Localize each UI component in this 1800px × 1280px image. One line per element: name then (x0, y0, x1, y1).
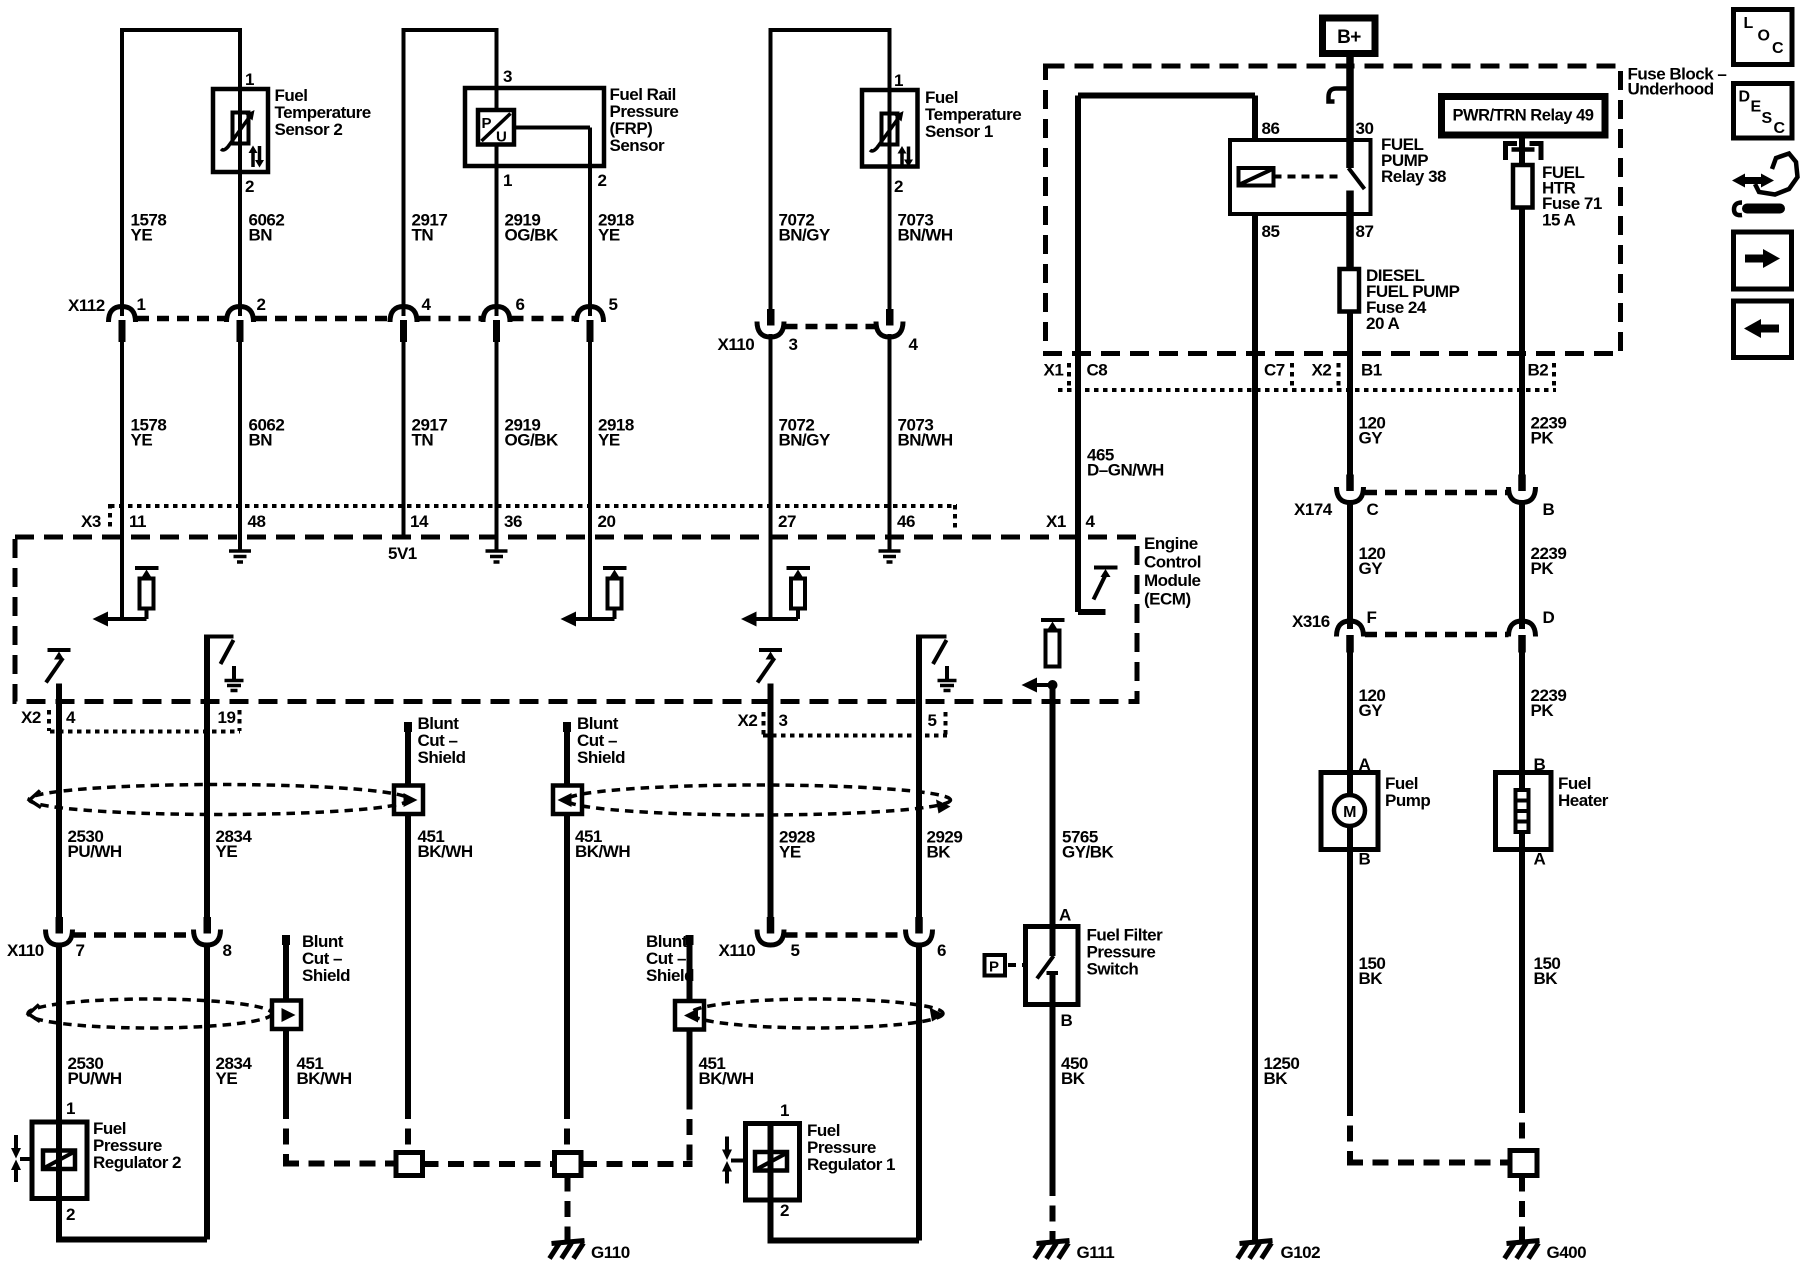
wire relay 87 to fuse 24 (1346, 214, 1354, 269)
svg-text:1: 1 (894, 71, 903, 90)
wire 2917 TN to ECM (402, 342, 406, 537)
svg-text:C8: C8 (1087, 361, 1108, 380)
svg-text:85: 85 (1262, 222, 1280, 241)
X110 dash 7-8 (74, 932, 194, 938)
connector X3 dotted face line (110, 504, 957, 531)
svg-text:11: 11 (129, 512, 146, 531)
svg-text:X174: X174 (1294, 500, 1333, 519)
svg-text:G110: G110 (591, 1243, 630, 1262)
svg-text:2: 2 (257, 295, 266, 314)
ECM internal low-side switch (X2 pin 5) (919, 635, 957, 702)
DIESEL FUEL PUMP Fuse 24 (1340, 269, 1360, 312)
PWR/TRN Relay 49 box (1442, 97, 1606, 136)
wire 6062 BN to ECM (238, 342, 242, 551)
svg-text:1: 1 (503, 171, 512, 190)
svg-text:1: 1 (245, 70, 254, 89)
wire 450 BK (switch B down) (1050, 1005, 1056, 1181)
svg-text:L: L (1744, 15, 1754, 32)
wire 1250 BK (relay 85 to G102) (1252, 214, 1258, 1241)
svg-text:B2: B2 (1528, 361, 1549, 380)
X112 pin 4 terminal (390, 307, 417, 343)
junction dot (5765 line) (1048, 680, 1058, 690)
X110 pin 7 terminal (46, 917, 73, 945)
svg-text:27: 27 (778, 512, 796, 531)
ECM internal pull-up resistor (pin 11) (140, 579, 154, 609)
X110 pin 5 terminal (757, 917, 784, 945)
svg-text:X110: X110 (719, 941, 756, 960)
wire 120 GY (X174-C to X316-F) (1347, 501, 1353, 630)
ECM internal ground (pin 46) (879, 537, 901, 562)
wire 450 BK dashed to ground (1050, 1180, 1056, 1241)
svg-text:X2: X2 (738, 711, 758, 730)
shield termination box (upper-right) (553, 786, 582, 815)
shield drain wire 451 BK/WH (lower-right) (687, 945, 693, 1103)
svg-text:X110: X110 (718, 335, 755, 354)
wire 2918 YE to ECM (588, 342, 592, 619)
wire 7072 BN/GY top loop (Fuel Temperature Sensor 1 supply) (771, 28, 890, 309)
wire 7073 BN/WH (sensor 1 pin 2 down) (888, 167, 892, 310)
X112 pin 6 terminal (483, 307, 510, 343)
svg-text:3: 3 (503, 67, 512, 86)
shield ellipse (2530/2834 pair lower) (28, 999, 272, 1028)
svg-text:2: 2 (598, 171, 607, 190)
wire 2530 PU/WH (X110-7 to regulator 2) (56, 943, 62, 1122)
svg-text:C: C (1774, 120, 1786, 137)
fuel heater element (1516, 773, 1529, 850)
icon DESC box (1734, 84, 1793, 139)
svg-text:450BK: 450BK (1061, 1054, 1088, 1088)
X2 (left) dotted face line (49, 710, 240, 732)
svg-text:6: 6 (937, 941, 946, 960)
X110 dash 3-4 (786, 324, 877, 330)
X110 dash 5-6 (786, 932, 906, 938)
svg-text:5: 5 (609, 295, 618, 314)
wire 2834 YE (ECM X2-19 to X110-8) (204, 702, 210, 918)
X112 pin 2 terminal (227, 307, 254, 343)
ECM internal input arrow (pin 27) (741, 609, 798, 627)
icon compare arrows (1732, 154, 1798, 216)
splice box (shield drain, left) (396, 1153, 423, 1176)
B+ feed box (1323, 18, 1376, 54)
relay 38 coil (1239, 168, 1274, 186)
wire PWR/TRN to fuse 71 (1519, 136, 1525, 165)
svg-text:E: E (1751, 99, 1762, 116)
bus tap hook symbol (1329, 89, 1348, 102)
regulator 2 return loop to X110-8 (56, 1199, 207, 1240)
svg-text:86: 86 (1262, 119, 1280, 138)
FRP internal wires (497, 88, 591, 166)
svg-text:2: 2 (780, 1201, 789, 1220)
svg-text:X2: X2 (1312, 361, 1332, 380)
wire 150 BK dashed (heater to splice) (1519, 1097, 1525, 1150)
shield drain dashed to corner (right) (581, 1103, 693, 1164)
wire 2239 PK (X174-B to X316-D) (1519, 501, 1525, 630)
splice box (150 BK) (1510, 1151, 1537, 1176)
svg-text:150BK: 150BK (1534, 954, 1561, 988)
svg-text:X110: X110 (7, 941, 44, 960)
ECM internal low-side switch (X2 pin 19) (207, 635, 244, 702)
X2 (middle) dotted face line (763, 712, 947, 736)
fuse 71 holder clip (1506, 144, 1542, 161)
FUEL PUMP Relay 38 box (1230, 140, 1371, 214)
shield termination box (lower-right) (675, 1001, 704, 1030)
dashed stub splice to G400 (1519, 1176, 1525, 1242)
svg-text:4: 4 (422, 295, 432, 314)
svg-text:PWR/TRN Relay 49: PWR/TRN Relay 49 (1453, 106, 1594, 125)
X316 dash F-D (1365, 632, 1509, 638)
wire 120 GY (fuse 24 to X174-C) (1347, 312, 1353, 475)
ground G400 (1505, 1241, 1540, 1259)
fuse block connector dotted face line (1058, 363, 1556, 390)
Fuel Filter Pressure Switch box (1026, 927, 1079, 1005)
Fuel Rail Pressure (FRP) Sensor box (465, 88, 604, 166)
wire 2919 OG/BK to ECM (495, 342, 499, 551)
svg-text:X1: X1 (1046, 512, 1066, 531)
svg-text:D: D (1739, 89, 1750, 106)
regulator 1 valve arrows (722, 1137, 746, 1184)
wire 6062 BN (sensor 2 pin 2 down) (238, 172, 242, 316)
wire 2929 BK (ECM X2-5 to X110-6) (916, 702, 922, 918)
ECM internal output arrow (5765 line) (1022, 678, 1049, 693)
ECM internal pull-up (5765 line): supply bar (1041, 620, 1065, 630)
X174 dash C-B (1365, 490, 1509, 496)
ground G110 (550, 1241, 585, 1259)
pressure sensing element P/U (FRP) (478, 110, 514, 146)
ECM internal switch lever (X1 pin 4) (1094, 575, 1106, 600)
svg-text:120GY: 120GY (1359, 544, 1386, 578)
svg-text:M: M (1343, 804, 1356, 821)
svg-text:X3: X3 (81, 512, 101, 531)
svg-text:2: 2 (66, 1205, 75, 1224)
wire 5765 GY/BK (ECM to pressure switch) (1050, 685, 1056, 927)
Fuel Temperature Sensor 2 box (213, 89, 268, 172)
shield drain dashed corner (left) (283, 1103, 396, 1164)
wire 7073 BN/WH to ECM (888, 334, 892, 551)
svg-text:4: 4 (909, 335, 919, 354)
svg-text:3: 3 (779, 711, 788, 730)
svg-text:1: 1 (66, 1099, 75, 1118)
svg-text:4: 4 (1086, 512, 1096, 531)
shield drain wire 451 BK/WH (upper-right) (564, 732, 570, 1103)
Fuel Pressure Regulator 1 box (746, 1124, 800, 1201)
shield drain wire 451 BK/WH (lower-left) (283, 945, 289, 1103)
icon LOC box (1734, 10, 1793, 65)
svg-text:87: 87 (1356, 222, 1374, 241)
ECM internal input arrow (pin 20) (561, 609, 615, 627)
regulator 1 solenoid coil (755, 1152, 787, 1171)
wire 150 BK dashed (pump to splice) (1347, 1100, 1510, 1163)
wire 2834 YE (X110-8 to loop) (204, 943, 210, 1240)
svg-text:O: O (1758, 28, 1770, 45)
ground G102 (1238, 1241, 1273, 1259)
thermistor symbol (sensor 2) (221, 89, 264, 172)
svg-text:14: 14 (410, 512, 429, 531)
svg-text:150BK: 150BK (1359, 954, 1386, 988)
ECM internal input arrow (pin 11) (93, 609, 147, 627)
Fuse Block - Underhood dashed box (1046, 66, 1621, 354)
ground G111 (1035, 1241, 1070, 1259)
svg-text:D: D (1543, 608, 1555, 627)
svg-text:5: 5 (791, 941, 800, 960)
svg-text:19: 19 (218, 708, 236, 727)
svg-text:C7: C7 (1264, 361, 1285, 380)
svg-text:S: S (1762, 110, 1773, 127)
svg-text:20: 20 (598, 512, 616, 531)
Fuel Heater box (1496, 773, 1552, 850)
svg-text:X1: X1 (1044, 361, 1064, 380)
svg-text:P: P (482, 115, 492, 132)
X316 pin D terminal (1509, 621, 1536, 653)
wire 7072 BN/GY to ECM (769, 334, 773, 619)
ECM internal driver (X2 pin 3): supply bar (759, 650, 782, 660)
wire 2239 PK (X316-D to fuel heater B) (1519, 653, 1525, 773)
shield drain dashed (between splices) (423, 1161, 555, 1167)
wire 2530 PU/WH (ECM X2-4 to X110-7) (56, 684, 62, 918)
svg-text:120GY: 120GY (1359, 414, 1386, 448)
svg-text:8: 8 (223, 941, 232, 960)
blunt cut tick (shield 451 upper-left) (404, 722, 412, 732)
svg-text:G111: G111 (1077, 1243, 1115, 1262)
shield ellipse (2928/2929 pair lower) (691, 999, 943, 1028)
P actuator box (pressure switch) (985, 955, 1006, 976)
svg-text:5: 5 (928, 711, 937, 730)
X316 pin F terminal (1337, 621, 1364, 653)
svg-text:3: 3 (789, 335, 798, 354)
shield drain dashed (451 upper-left leg) (405, 1103, 411, 1152)
wire 1578 YE top loop (Fuel Temperature Sensor 2 supply) (122, 28, 240, 316)
svg-text:B+: B+ (1337, 27, 1361, 48)
shield ellipse arrow (right tip) (936, 800, 951, 814)
wire B+ to relay 30 (1346, 54, 1354, 141)
X174 pin C terminal (1337, 475, 1364, 503)
ECM internal ground (pin 36) (486, 537, 508, 562)
blunt cut tick (shield 451 lower-left) (282, 935, 290, 945)
splice box (shield drain, right) (555, 1153, 582, 1176)
svg-text:6: 6 (516, 295, 525, 314)
ECM internal pull-up resistor (5765 line) (1046, 631, 1060, 667)
svg-text:C: C (1367, 500, 1379, 519)
regulator 2 solenoid coil (43, 1151, 75, 1170)
svg-text:2: 2 (245, 177, 254, 196)
regulator 2 valve arrows (11, 1135, 32, 1182)
ECM internal driver to B+ (X1 pin 4): supply bar (1094, 568, 1118, 578)
X112 dash 4-6 (419, 316, 484, 322)
wire 1578 YE to ECM (120, 342, 124, 619)
wire 120 GY (X316-F to fuel pump A) (1347, 653, 1353, 773)
blunt cut tick (shield 451 upper-right) (563, 722, 571, 732)
svg-text:7: 7 (76, 941, 85, 960)
regulator 1 internal wire (768, 1124, 774, 1201)
svg-text:G102: G102 (1281, 1243, 1321, 1262)
shield ellipse open arrow (left tip) (30, 791, 42, 808)
X112 pin 1 terminal (109, 307, 136, 343)
ECM internal pull-up, pin 20: supply bar (603, 568, 627, 578)
Engine Control Module (ECM) dashed box (15, 537, 1137, 702)
relay 38 coil-switch dashed link (1274, 175, 1341, 179)
X110 pin 3 terminal (757, 309, 784, 337)
svg-text:30: 30 (1356, 119, 1374, 138)
X110 pin 6 terminal (906, 917, 933, 945)
svg-text:Fuse Block –Underhood: Fuse Block –Underhood (1628, 65, 1727, 99)
icon forward arrow box (1734, 232, 1792, 289)
X110 pin 8 terminal (194, 917, 221, 945)
ECM internal switch lever (X2 pin 4) (46, 658, 63, 683)
svg-text:X2: X2 (21, 708, 41, 727)
ECM internal wire L (X1 pin 4) (1078, 537, 1106, 612)
svg-text:A: A (1059, 906, 1071, 925)
relay 38 switch (1349, 140, 1365, 214)
shield termination box (upper-left) (394, 786, 423, 815)
svg-text:P: P (989, 959, 999, 976)
svg-text:A: A (1534, 850, 1546, 869)
wire 150 BK (fuel pump B) (1347, 850, 1353, 1101)
shield termination box (lower-left) (272, 1001, 301, 1030)
svg-text:C: C (1772, 40, 1784, 57)
X112 dash 2-4 (255, 316, 390, 322)
svg-text:1: 1 (137, 295, 146, 314)
svg-text:X112: X112 (68, 296, 105, 315)
wire 2918 YE (FRP pin 2 down) (588, 166, 592, 316)
wire 2928 YE (ECM X2-3 to X110-5) (768, 684, 774, 918)
svg-text:48: 48 (248, 512, 266, 531)
P actuator dashed link (1008, 963, 1026, 967)
shield ellipse open arrow (left tip, lower) (29, 1005, 41, 1022)
wire 2917 TN top loop (FRP supply) (404, 28, 497, 316)
wire 2239 PK (fuse 71 to X174-B) (1519, 208, 1525, 475)
ECM internal switch lever (X2 pin 3) (758, 658, 775, 683)
wire relay 86 to fuse block exit C8 (1078, 96, 1255, 538)
svg-text:F: F (1367, 608, 1377, 627)
wire 150 BK (fuel heater A) (1519, 850, 1525, 1098)
X112 dash 6-5 (512, 316, 577, 322)
shield ellipse (2530/2834 pair) (29, 785, 409, 815)
svg-text:B: B (1543, 500, 1555, 519)
regulator 1 return loop to X110-6 (768, 943, 920, 1241)
X110 pin 4 terminal (876, 309, 903, 337)
shield drain dashed (451 upper-right leg) (564, 1103, 570, 1152)
Fuel Pump box (1321, 773, 1378, 850)
svg-text:4: 4 (66, 708, 76, 727)
blunt cut tick (shield 451 lower-right) (686, 935, 694, 945)
Fuel Pressure Regulator 2 box (32, 1122, 87, 1199)
shield drain wire 451 BK/WH (upper-left) (405, 732, 411, 1103)
svg-text:B: B (1061, 1011, 1073, 1030)
shield ellipse (2928/2929 pair) (567, 785, 951, 815)
ECM internal pull-up resistor (pin 20) (608, 579, 622, 609)
svg-text:2: 2 (894, 177, 903, 196)
FUEL HTR Fuse 71 (1513, 165, 1533, 208)
thermistor symbol (sensor 1) (870, 90, 913, 167)
svg-text:46: 46 (897, 512, 915, 531)
X112 pin 5 terminal (577, 307, 604, 343)
pressure switch internal contact (1037, 927, 1058, 1005)
svg-text:120GY: 120GY (1359, 686, 1386, 720)
regulator 2 internal wire (56, 1122, 62, 1199)
wire 2919 OG/BK (FRP pin 1 down) (495, 166, 499, 316)
svg-text:G400: G400 (1547, 1243, 1587, 1262)
X112 dash 1-2 (137, 316, 226, 322)
shield drain dashed stub to G110 (565, 1176, 571, 1242)
shield ellipse arrow (right tip, lower) (930, 1008, 945, 1022)
svg-text:B: B (1359, 850, 1371, 869)
ECM internal driver (X2 pin 4): supply bar (48, 650, 71, 660)
ECM internal pull-up, pin 27: supply bar (787, 568, 811, 578)
icon back arrow box (1734, 301, 1792, 358)
svg-text:5V1: 5V1 (388, 544, 417, 563)
fuel pump motor M (1334, 773, 1365, 850)
ECM internal pull-up, pin 11: supply bar (135, 568, 159, 578)
X174 pin B terminal (1509, 475, 1536, 503)
ECM internal pull-up resistor (pin 27) (791, 579, 805, 609)
Fuel Temperature Sensor 1 box (862, 90, 918, 167)
svg-text:X316: X316 (1292, 612, 1330, 631)
svg-text:1: 1 (780, 1101, 789, 1120)
ECM internal ground (pin 48) (229, 537, 251, 562)
svg-text:B1: B1 (1361, 361, 1382, 380)
svg-text:36: 36 (504, 512, 522, 531)
svg-text:U: U (496, 129, 506, 146)
